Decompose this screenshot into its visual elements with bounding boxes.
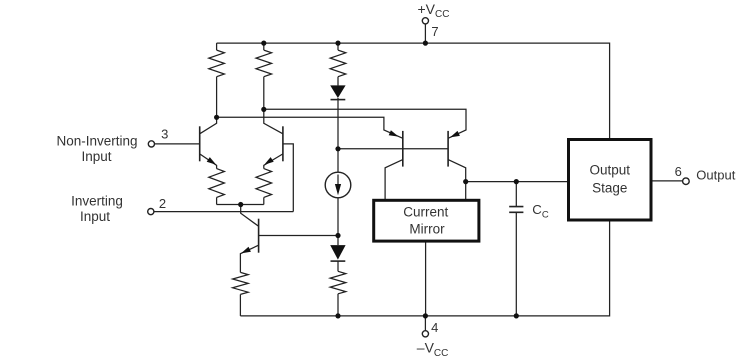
- svg-text:Input: Input: [80, 209, 110, 224]
- svg-text:7: 7: [431, 24, 438, 39]
- svg-text:Input: Input: [81, 149, 111, 164]
- svg-text:3: 3: [161, 127, 168, 142]
- svg-text:+VCC: +VCC: [418, 1, 450, 20]
- svg-text:CC: CC: [532, 202, 549, 220]
- svg-text:Output: Output: [590, 163, 631, 178]
- svg-text:2: 2: [159, 196, 166, 211]
- svg-text:Output: Output: [696, 167, 735, 182]
- svg-text:Non-Inverting: Non-Inverting: [56, 134, 137, 149]
- svg-text:Current: Current: [403, 204, 448, 219]
- svg-text:Inverting: Inverting: [71, 194, 123, 209]
- svg-text:–VCC: –VCC: [417, 340, 449, 359]
- svg-text:4: 4: [431, 320, 438, 335]
- svg-text:6: 6: [675, 164, 682, 179]
- svg-text:Mirror: Mirror: [409, 221, 445, 236]
- svg-text:Stage: Stage: [592, 181, 627, 196]
